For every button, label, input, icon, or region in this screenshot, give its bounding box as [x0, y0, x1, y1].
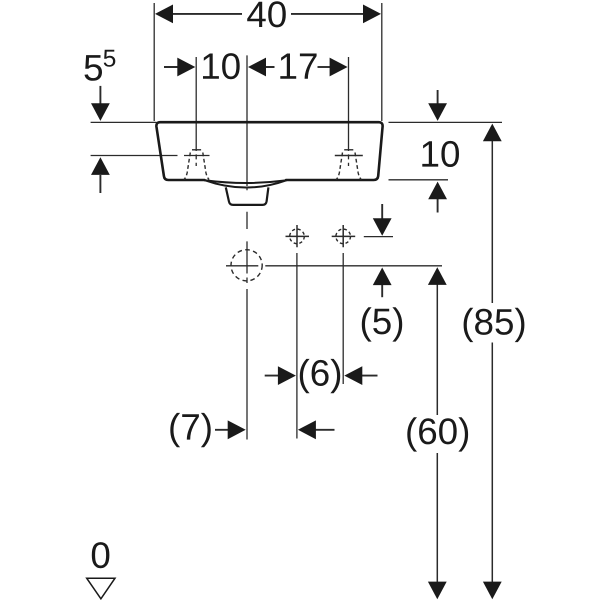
dim 6 arrow tails	[265, 375, 378, 377]
label 10 top	[203, 53, 240, 79]
right 10 up arrow head	[428, 182, 447, 200]
label (85)	[464, 308, 525, 342]
dim 60 line upper	[436, 283, 438, 415]
dim 40 dimension line	[169, 13, 367, 15]
label 0 datum	[92, 542, 110, 568]
right 10 top line	[389, 121, 503, 123]
washbasin outline	[156, 122, 382, 180]
extension line below cross 2	[342, 253, 344, 384]
dim 7 arrow tails	[215, 429, 335, 431]
label 5 main	[85, 55, 103, 81]
dim 17 arrow tails	[318, 66, 331, 68]
dim 6 arrow pointing right	[278, 366, 296, 385]
tap hole 2 dashed cone	[336, 150, 361, 180]
dim 7 arrow pointing left	[298, 420, 316, 439]
datum open triangle	[87, 578, 115, 599]
dim 10 top extension line A dashed tail	[195, 146, 197, 166]
label (7)	[170, 413, 210, 447]
small cross 1 dashed circle	[290, 229, 305, 244]
label 40	[247, 1, 286, 27]
tap hole 2 cross horizontal	[335, 155, 363, 157]
dim 5 short line	[364, 236, 393, 238]
center line B dashes through drain	[246, 187, 248, 439]
dim 85 line lower	[491, 343, 493, 586]
extension line below cross 1	[296, 253, 298, 439]
drain stub	[226, 187, 269, 205]
right 10 down arrow stem	[437, 90, 439, 107]
dim 7 arrow pointing right	[228, 420, 246, 439]
dim 85 up arrow head	[483, 124, 502, 142]
dim 40 extension line left	[153, 3, 155, 121]
tap hole 1 dashed cone	[184, 150, 209, 180]
dim 55 down arrow head	[91, 103, 110, 121]
label 5 sup	[104, 50, 116, 67]
dim 40 arrow left	[155, 5, 173, 24]
dim 10 top extension line A	[195, 57, 197, 146]
center extension line B upper	[246, 55, 248, 186]
dim 5 up arrow head	[373, 268, 392, 286]
dim 60 line lower	[436, 453, 438, 585]
label 10 right	[422, 141, 459, 167]
right 10 bottom line	[389, 179, 449, 181]
dim 6 arrow pointing left	[344, 366, 362, 385]
dim 10 arrow pointing right	[177, 58, 195, 77]
dim 17 arrow pointing right	[330, 58, 348, 77]
drain flange lens	[205, 180, 286, 187]
right 10 down arrow head	[428, 103, 447, 121]
dim 10 arrow pointing left	[248, 58, 266, 77]
small cross 2	[332, 225, 356, 247]
label (5)	[362, 307, 402, 341]
dim 5 up arrow stem	[381, 283, 383, 297]
dim 40 extension line right	[381, 3, 383, 121]
dim 55 down arrow stem	[99, 86, 101, 106]
right 10 up arrow stem	[437, 196, 439, 213]
dim 55 top line	[91, 121, 157, 123]
dim 17 extension line C dashed tail	[348, 146, 350, 166]
dim 55 up arrow stem	[99, 175, 101, 193]
dim 55 bottom line	[91, 155, 210, 157]
label (60)	[407, 417, 468, 451]
big dashed circle (drain center)	[231, 250, 262, 281]
dim 85 down arrow head	[483, 582, 502, 600]
dim 60 down arrow head	[428, 582, 447, 600]
dim 60 up arrow head	[428, 267, 447, 285]
label (6)	[300, 359, 340, 393]
dim 10 arrow tails	[164, 66, 275, 68]
small cross 2 dashed circle	[336, 229, 351, 244]
small cross 1	[286, 225, 310, 247]
label 17	[280, 54, 316, 79]
dim 85 line upper	[491, 140, 493, 303]
dim 55 up arrow head	[91, 157, 110, 175]
dim 5 down arrow head	[373, 218, 392, 236]
trap line horizontal	[226, 265, 442, 267]
dim 5 down arrow stem	[381, 204, 383, 221]
dim 17 extension line C	[348, 57, 350, 146]
dim 40 arrow right	[363, 5, 381, 24]
